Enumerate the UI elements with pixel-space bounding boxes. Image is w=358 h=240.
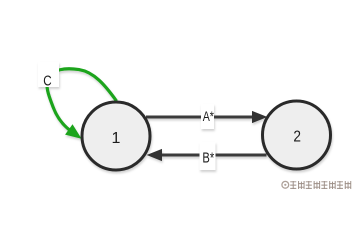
svg-text:2: 2 — [293, 128, 301, 145]
svg-text:1: 1 — [112, 130, 121, 147]
node 1 — [82, 102, 150, 170]
arrowhead into node 1 — [148, 150, 162, 161]
svg-text:A*: A* — [203, 109, 215, 125]
node 2 — [263, 101, 331, 169]
watermark logo — [282, 181, 289, 188]
arrowhead into node 2 — [253, 112, 267, 123]
label B* background — [200, 142, 216, 170]
watermark text "稀土掘金技术社区" (drawn strokes) — [290, 181, 351, 189]
edge 1->2 wire (A*) — [146, 116, 253, 119]
arrowhead of self-loop into node 1 — [66, 125, 81, 138]
label C background — [38, 62, 59, 87]
svg-text:C: C — [43, 74, 52, 90]
edge 2->1 wire (B*) — [162, 154, 267, 157]
label A* background — [201, 104, 214, 129]
self-loop edge C on node 1 — [47, 69, 117, 130]
svg-text:B*: B* — [202, 150, 214, 166]
